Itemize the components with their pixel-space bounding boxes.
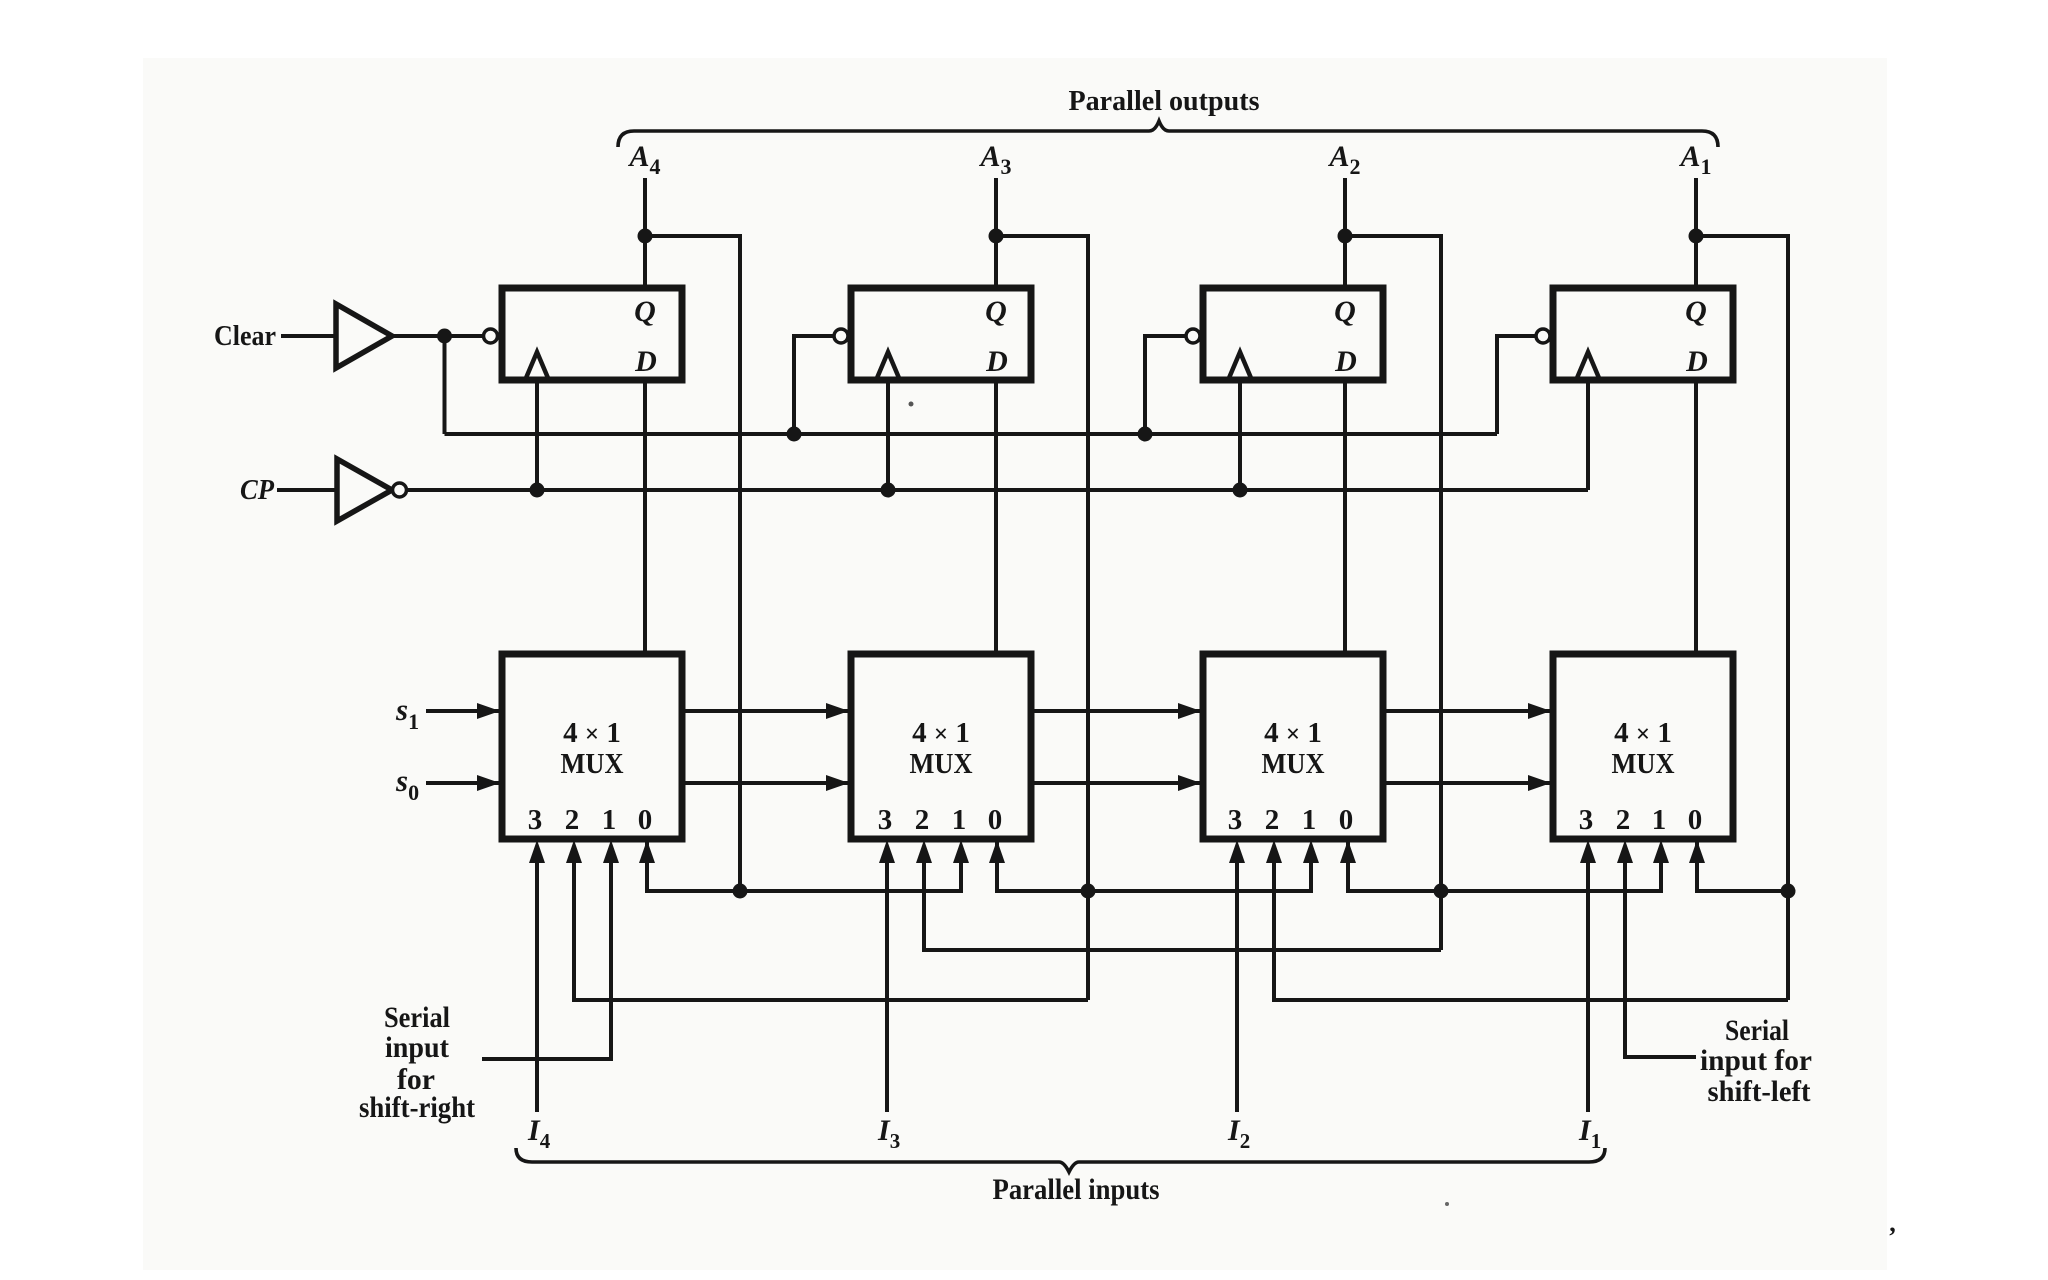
wire A3 feedback run xyxy=(996,236,1088,1000)
pin arrowhead input2 MUX3 xyxy=(1266,840,1282,863)
wire Clear riser FF1 xyxy=(1497,336,1536,434)
svg-text:D: D xyxy=(634,345,657,378)
svg-text:Parallel outputs: Parallel outputs xyxy=(1069,85,1260,117)
node A1 junction xyxy=(1689,229,1704,244)
op-amp 4x1 MUX1 (stage A4) xyxy=(502,654,682,839)
wire shift-left bus stage 2 xyxy=(1274,851,1788,1000)
node Clear bus junction 2 xyxy=(1138,427,1153,442)
wire Clear riser FF3 xyxy=(794,336,834,434)
pin CP inverter bubble xyxy=(393,483,407,497)
svg-text:MUX: MUX xyxy=(910,748,973,780)
pin arrowhead input0 MUX1 xyxy=(639,840,655,863)
svg-text:Parallel inputs: Parallel inputs xyxy=(993,1173,1160,1206)
pin clear bubble FF4 xyxy=(484,329,498,343)
pin arrowhead input1 MUX3 xyxy=(1303,840,1319,863)
svg-text:0: 0 xyxy=(638,804,653,836)
wire Clear riser FF2 xyxy=(1145,336,1186,434)
wire s1 bus MUX1 to MUX2 xyxy=(682,709,849,713)
svg-text:2: 2 xyxy=(1265,804,1280,836)
wire Q output A4 vertical xyxy=(643,178,647,288)
svg-text:Serial: Serial xyxy=(1725,1014,1789,1047)
svg-text:3: 3 xyxy=(878,804,893,836)
inverter CP xyxy=(337,459,392,521)
svg-text:4 × 1: 4 × 1 xyxy=(1264,717,1322,749)
wire CP input xyxy=(277,488,337,492)
wire s1 into MUX1 xyxy=(426,709,500,713)
svg-text:0: 0 xyxy=(988,804,1003,836)
pin arrowhead input2 MUX1 xyxy=(566,840,582,863)
node Clear bus junction 1 xyxy=(787,427,802,442)
wire shift-left bus stage 0 xyxy=(574,851,1088,1000)
pin s1 arrowhead MUX4 xyxy=(1528,703,1551,719)
node hold junction stage 0 xyxy=(733,884,748,899)
wire s0 into MUX1 xyxy=(426,781,500,785)
svg-text:Q: Q xyxy=(634,295,656,328)
pin arrowhead input1 MUX2 xyxy=(953,840,969,863)
wire Q output A1 vertical xyxy=(1694,178,1698,288)
svg-text:D: D xyxy=(1685,345,1708,378)
svg-text:MUX: MUX xyxy=(1612,748,1675,780)
wire A2 feedback run xyxy=(1345,236,1441,950)
wire hold bus stage 3 xyxy=(1697,839,1788,891)
pin arrowhead input3 MUX2 xyxy=(879,840,895,863)
flip-flop FF2 (stage A2) xyxy=(1203,288,1383,380)
svg-text:Clear: Clear xyxy=(214,320,276,352)
wire serial input shift-right xyxy=(482,851,611,1059)
wire Q output A2 vertical xyxy=(1343,178,1347,288)
node hold junction stage 1 xyxy=(1081,884,1096,899)
svg-text:D: D xyxy=(1334,345,1357,378)
flip-flop FF3 (stage A3) xyxy=(851,288,1031,380)
svg-text:2: 2 xyxy=(1616,804,1631,836)
pin arrowhead input0 MUX4 xyxy=(1689,840,1705,863)
wire Clear input xyxy=(281,334,336,338)
flip-flop FF4 (stage A4) xyxy=(502,288,682,380)
wire clock riser FF2 xyxy=(1238,380,1242,490)
wire shift-left bus stage 1 xyxy=(924,851,1441,950)
wire serial input shift-left xyxy=(1625,851,1696,1057)
brace under parallel inputs xyxy=(516,1148,1605,1172)
op-amp 4x1 MUX3 (stage A2) xyxy=(1203,654,1383,839)
brace over parallel outputs xyxy=(618,121,1718,147)
wire MUX3 output to D of FF2 xyxy=(1343,380,1347,654)
svg-text:Serial: Serial xyxy=(384,1001,450,1034)
svg-text:CP: CP xyxy=(240,474,274,506)
svg-text:input for: input for xyxy=(1700,1044,1812,1077)
pin s1 arrowhead MUX3 xyxy=(1178,703,1201,719)
flip-flop FF1 (stage A1) xyxy=(1553,288,1733,380)
svg-text:MUX: MUX xyxy=(1262,748,1325,780)
wire s1 bus MUX3 to MUX4 xyxy=(1383,709,1551,713)
svg-text:3: 3 xyxy=(1579,804,1594,836)
svg-text:Q: Q xyxy=(1334,295,1356,328)
wire clock riser FF4 xyxy=(535,380,539,490)
svg-text:2: 2 xyxy=(915,804,930,836)
svg-text:1: 1 xyxy=(1302,804,1317,836)
wire MUX4 output to D of FF1 xyxy=(1694,380,1698,654)
node hold junction stage 3 xyxy=(1781,884,1796,899)
pin arrowhead input0 MUX3 xyxy=(1340,840,1356,863)
svg-text:input: input xyxy=(385,1031,449,1064)
svg-text:MUX: MUX xyxy=(561,748,624,780)
svg-text:0: 0 xyxy=(1339,804,1354,836)
node A4 junction xyxy=(638,229,653,244)
wire Clear buffer output xyxy=(394,334,483,338)
pin arrowhead input1 MUX1 xyxy=(603,840,619,863)
pin arrowhead input2 MUX2 xyxy=(916,840,932,863)
wire CP bus xyxy=(407,488,1589,492)
svg-text:3: 3 xyxy=(528,804,543,836)
wire hold bus stage 0 xyxy=(647,839,961,891)
wire MUX2 output to D of FF3 xyxy=(994,380,998,654)
wire parallel input I3 xyxy=(885,851,889,1112)
wire hold bus stage 2 xyxy=(1348,839,1661,891)
pin clear bubble FF2 xyxy=(1186,329,1200,343)
pin s0 arrowhead MUX3 xyxy=(1178,775,1201,791)
pin clear bubble FF1 xyxy=(1536,329,1550,343)
op-amp 4x1 MUX2 (stage A3) xyxy=(851,654,1031,839)
wire Q output A3 vertical xyxy=(994,178,998,288)
op-amp 4x1 MUX4 (stage A1) xyxy=(1553,654,1733,839)
svg-text:Q: Q xyxy=(985,295,1007,328)
pin arrowhead input1 MUX4 xyxy=(1653,840,1669,863)
node CP junction 2 xyxy=(1233,483,1248,498)
wire Clear bus xyxy=(445,432,1498,436)
wire Clear drop xyxy=(443,336,447,434)
svg-text:0: 0 xyxy=(1688,804,1703,836)
pin arrowhead input3 MUX4 xyxy=(1580,840,1596,863)
wire s0 bus MUX3 to MUX4 xyxy=(1383,781,1551,785)
wire s0 bus MUX1 to MUX2 xyxy=(682,781,849,785)
buffer Clear xyxy=(336,304,392,368)
pin arrowhead input3 MUX3 xyxy=(1229,840,1245,863)
svg-text:3: 3 xyxy=(1228,804,1243,836)
svg-text:1: 1 xyxy=(1652,804,1667,836)
pin s0 arrowhead MUX1 xyxy=(477,775,500,791)
svg-text:4 × 1: 4 × 1 xyxy=(1614,717,1672,749)
pin arrowhead input2 MUX4 xyxy=(1617,840,1633,863)
svg-text:Q: Q xyxy=(1685,295,1707,328)
node CP junction 1 xyxy=(881,483,896,498)
wire MUX1 output to D of FF4 xyxy=(643,380,647,654)
wire parallel input I4 xyxy=(535,851,539,1112)
wire parallel input I1 xyxy=(1586,851,1590,1112)
wire A1 feedback run xyxy=(1696,236,1788,1000)
svg-text:1: 1 xyxy=(602,804,617,836)
wire clock riser FF3 xyxy=(886,380,890,490)
node hold junction stage 2 xyxy=(1434,884,1449,899)
pin s1 arrowhead MUX1 xyxy=(477,703,500,719)
svg-text:’: ’ xyxy=(1888,1222,1897,1251)
pin s0 arrowhead MUX2 xyxy=(826,775,849,791)
node A2 junction xyxy=(1338,229,1353,244)
pin arrowhead input0 MUX2 xyxy=(989,840,1005,863)
wire hold bus stage 1 xyxy=(997,839,1311,891)
svg-text:shift-right: shift-right xyxy=(359,1091,475,1124)
pin clear bubble FF3 xyxy=(834,329,848,343)
svg-text:D: D xyxy=(985,345,1008,378)
wire clock riser FF1 xyxy=(1586,380,1590,490)
wire s0 bus MUX2 to MUX3 xyxy=(1031,781,1201,785)
node Clear junction xyxy=(437,329,452,344)
node A3 junction xyxy=(989,229,1004,244)
wire s1 bus MUX2 to MUX3 xyxy=(1031,709,1201,713)
pin s1 arrowhead MUX2 xyxy=(826,703,849,719)
svg-text:2: 2 xyxy=(565,804,580,836)
svg-text:4 × 1: 4 × 1 xyxy=(563,717,621,749)
wire A4 feedback run xyxy=(645,236,740,891)
svg-text:shift-left: shift-left xyxy=(1708,1075,1811,1108)
wire parallel input I2 xyxy=(1235,851,1239,1112)
svg-text:4 × 1: 4 × 1 xyxy=(912,717,970,749)
pin s0 arrowhead MUX4 xyxy=(1528,775,1551,791)
node CP junction 0 xyxy=(530,483,545,498)
pin arrowhead input3 MUX1 xyxy=(529,840,545,863)
svg-text:1: 1 xyxy=(952,804,967,836)
